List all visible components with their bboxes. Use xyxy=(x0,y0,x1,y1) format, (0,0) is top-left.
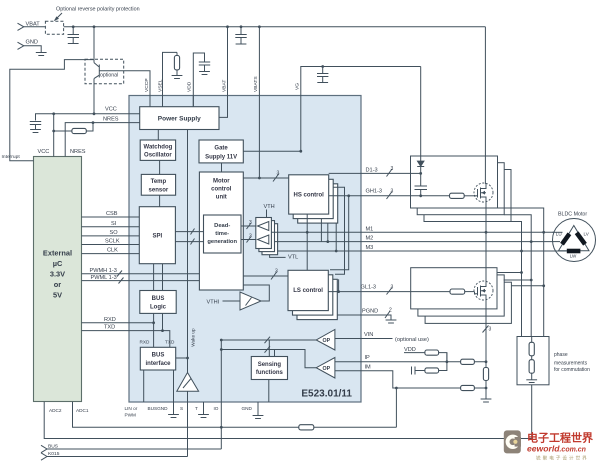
block HS control (stacked x3) xyxy=(289,175,338,223)
svg-text:E523.01/11: E523.01/11 xyxy=(301,389,352,400)
wire CLK from uC to SPI xyxy=(82,248,140,254)
resistor R-phase1 inside box xyxy=(529,337,534,356)
wire VBATS pin vertical xyxy=(258,25,261,179)
wire VG rail xyxy=(301,67,421,96)
svg-text:BUS: BUS xyxy=(152,296,165,302)
svg-text:interface: interface xyxy=(145,361,171,367)
watermark logo square xyxy=(504,430,521,453)
svg-text:CLK: CLK xyxy=(107,248,118,254)
wire M2 entry into motor xyxy=(553,241,561,243)
svg-text:BUS: BUS xyxy=(152,352,165,358)
pin GL1-3 wire with bus 3 xyxy=(328,285,450,295)
svg-text:3: 3 xyxy=(391,166,394,172)
wire VCC rail to Power Supply xyxy=(36,107,140,121)
svg-text:Oscillator: Oscillator xyxy=(144,153,172,159)
wire VCCP pin to optional transistor base xyxy=(99,71,150,96)
label NRES above uC xyxy=(70,149,86,155)
svg-text:BUSGND: BUSGND xyxy=(148,406,169,411)
wire optional transistor to VCC node xyxy=(93,79,96,116)
resistor R-IP series xyxy=(461,359,475,364)
label RXD at BUS interface xyxy=(140,340,151,345)
wire SPI to dead-time generation lines xyxy=(175,229,203,245)
connector GND input xyxy=(18,40,42,53)
wire IO pin vertical inside chip xyxy=(220,340,222,449)
pin VDD rotated label xyxy=(187,81,193,92)
pin label S xyxy=(180,406,183,411)
pin VCCP rotated label xyxy=(144,78,150,92)
svg-text:Wake up: Wake up xyxy=(191,328,196,347)
svg-text:time-: time- xyxy=(215,231,229,237)
wire sensing functions down to GND xyxy=(268,380,270,403)
wire OP1 output to IO vertical xyxy=(220,337,316,344)
resistor R-phase2 inside box xyxy=(529,356,534,380)
svg-text:S: S xyxy=(180,406,183,411)
svg-text:sensor: sensor xyxy=(149,188,169,194)
svg-text:3: 3 xyxy=(249,220,252,226)
resistor R-VDD xyxy=(425,350,448,363)
svg-text:M2: M2 xyxy=(366,236,374,242)
pin M1 wire xyxy=(271,226,557,232)
svg-text:3: 3 xyxy=(249,234,252,240)
wire CSB from uC to SPI xyxy=(82,211,140,217)
diode D-bootstrap xyxy=(417,161,424,186)
svg-text:generation: generation xyxy=(207,239,237,245)
resistor R-IM filter xyxy=(425,353,447,374)
pin label GND xyxy=(242,406,253,411)
wire BUS Logic to BUS interface verticals xyxy=(152,313,164,347)
svg-text:Watchdog: Watchdog xyxy=(144,145,173,151)
pin PGND wire with bus 2 and ground xyxy=(337,308,396,324)
wire VCCP VSEL VDD pin stubs into Power Supply xyxy=(150,96,193,107)
wire dead-time to comparators upper xyxy=(241,220,256,229)
svg-text:T: T xyxy=(195,406,198,411)
wire Gate Supply to Motor control unit xyxy=(221,163,223,172)
ground symbol at GND input xyxy=(36,53,47,56)
wire LIN or PWM pin stub xyxy=(143,370,145,402)
block Temp sensor xyxy=(141,174,175,195)
svg-text:3: 3 xyxy=(489,327,492,333)
wire Watchdog Oscillator to Temp sensor xyxy=(159,160,161,174)
wire dead-time to comparators lower xyxy=(241,234,256,243)
watermark chinese title xyxy=(527,431,593,445)
capacitor C-IM filter xyxy=(412,367,425,375)
svg-text:3: 3 xyxy=(391,285,394,291)
svg-text:SI: SI xyxy=(111,221,117,227)
svg-text:3: 3 xyxy=(391,189,394,195)
svg-text:IM: IM xyxy=(365,364,372,370)
wire SPI to BUS Logic verticals xyxy=(154,264,163,291)
wire TXD from uC xyxy=(82,325,170,348)
svg-text:SPI: SPI xyxy=(152,234,162,240)
pin M2 wire xyxy=(275,236,560,242)
svg-text:(optional use): (optional use) xyxy=(395,337,429,343)
wire SI from uC to SPI xyxy=(82,221,140,227)
block Dead-time-generation xyxy=(204,215,242,253)
wire HS front box down to LS control top xyxy=(306,214,309,270)
svg-text:GL1-3: GL1-3 xyxy=(361,285,377,291)
connector VBAT input xyxy=(18,22,46,31)
wire HS front corner to phase column 1 xyxy=(498,208,546,337)
BLDC motor circle with delta windings xyxy=(553,219,596,262)
wire SO from uC to SPI xyxy=(82,230,140,236)
phase measurement box xyxy=(517,337,590,385)
svg-text:3: 3 xyxy=(277,171,280,177)
pin label T xyxy=(195,406,198,411)
resistor R-gate-LS xyxy=(411,289,475,294)
svg-text:GH1-3: GH1-3 xyxy=(366,189,382,195)
wire HS copy3 corner to phase column 3 xyxy=(511,222,523,337)
wire HS copy2 right stub down to LS copy2 xyxy=(333,187,344,274)
resistor R-IM series xyxy=(461,385,475,390)
dashed box reverse polarity element xyxy=(45,21,63,34)
wire LS copy3 corner to GL line xyxy=(337,279,340,293)
svg-text:HS control: HS control xyxy=(294,193,325,199)
resistor R-NRES pull-up xyxy=(52,114,94,157)
svg-text:NRES: NRES xyxy=(103,117,119,123)
svg-text:PGND: PGND xyxy=(362,309,378,315)
svg-text:ADC2: ADC2 xyxy=(49,408,62,413)
svg-text:M1: M1 xyxy=(366,226,374,232)
connector BUS input xyxy=(41,444,221,453)
pin GH1-3 wire with bus 3 xyxy=(329,189,421,200)
annotation Optional reverse polarity protection xyxy=(54,7,140,22)
wire HS copy2 down to M2 xyxy=(320,219,322,242)
svg-text:LS control: LS control xyxy=(293,288,323,294)
svg-text:Gate: Gate xyxy=(214,146,228,152)
label VDD pull-up xyxy=(404,347,425,353)
pin VG rotated label xyxy=(295,83,301,90)
watermark eeworld url xyxy=(527,444,586,454)
capacitor C5 on VG rail xyxy=(317,65,328,82)
BLDC motor label xyxy=(558,212,587,218)
svg-text:VCC: VCC xyxy=(105,107,117,113)
microcontroller block External uC xyxy=(34,157,82,402)
svg-text:for commutation: for commutation xyxy=(554,367,590,373)
svg-text:optional: optional xyxy=(100,73,118,79)
svg-text:VTHI: VTHI xyxy=(207,299,220,305)
resistor R-shunt vertical xyxy=(481,334,492,402)
wire HS source down to M1 and LS drain xyxy=(485,202,488,283)
pin label ADC1 xyxy=(76,408,89,413)
svg-text:VDD: VDD xyxy=(187,81,193,92)
block LS control (stacked x3) xyxy=(288,270,337,319)
svg-text:VDD: VDD xyxy=(404,347,416,353)
svg-text:GND: GND xyxy=(26,40,38,46)
OP amp 1 VIN xyxy=(316,330,335,351)
svg-text:M3: M3 xyxy=(366,245,374,251)
transistor Q-HS MOSFET xyxy=(474,183,493,202)
wire MCU to HS control with bus 3 xyxy=(243,171,288,182)
node VTL label and stub xyxy=(270,255,299,261)
wire HS copy3 down to M3 junction xyxy=(335,223,338,252)
svg-text:3.3V: 3.3V xyxy=(50,270,65,279)
svg-text:SCLK: SCLK xyxy=(105,239,120,245)
block Sensing functions xyxy=(251,357,287,380)
wire GH junction down to LS front box top xyxy=(330,194,350,269)
label VCC above uC xyxy=(38,149,50,155)
svg-text:or: or xyxy=(54,280,62,289)
wire sensing functions up stubs xyxy=(269,340,274,357)
svg-text:锐聚电子设计世界: 锐聚电子设计世界 xyxy=(536,455,589,462)
capacitor C-bootstrap xyxy=(415,186,428,197)
block Gate Supply 11V xyxy=(199,140,243,163)
svg-text:Dead-: Dead- xyxy=(214,223,230,229)
wire VBAT pin vertical xyxy=(219,25,229,117)
pin IP wire xyxy=(335,355,486,362)
wire LS source down to sense network xyxy=(485,300,487,335)
svg-text:Interrupt: Interrupt xyxy=(2,154,21,160)
resistor R-IO on rail xyxy=(299,425,397,430)
pin VSEL rotated label xyxy=(158,79,164,92)
pin label LIN or PWM xyxy=(125,406,138,418)
svg-text:GND: GND xyxy=(242,406,253,411)
svg-text:phase: phase xyxy=(554,352,568,358)
svg-text:3: 3 xyxy=(275,269,278,275)
wire VSEL pull-down xyxy=(163,52,183,106)
svg-text:IP: IP xyxy=(365,355,371,361)
svg-text:IO: IO xyxy=(214,406,219,411)
IC E523.01/11 main chip body xyxy=(129,96,361,403)
bus 3 marker on LS source xyxy=(483,326,492,333)
svg-text:Supply 11V: Supply 11V xyxy=(205,155,237,161)
svg-text:CSB: CSB xyxy=(106,211,118,217)
wire phase box to ADC2 rail xyxy=(531,385,533,439)
pin D1-3 wire with bus 3 xyxy=(329,166,421,177)
amplifier triangle above S pin xyxy=(176,357,199,402)
comparator stack VTH/VTL (stacked x3) xyxy=(256,218,278,255)
op-amp VTHI buffer xyxy=(207,285,270,310)
svg-text:D1-3: D1-3 xyxy=(366,168,378,174)
wire GND pin ground xyxy=(253,402,264,419)
wire HS copy2 corner to phase column 2 xyxy=(504,215,532,337)
block Motor control unit xyxy=(199,172,243,290)
wire M1 entry into motor xyxy=(553,231,563,233)
wire PWML 1-3 xyxy=(82,275,200,284)
label Wake up rotated xyxy=(191,328,196,347)
svg-text:PWMH 1-3: PWMH 1-3 xyxy=(90,268,117,274)
svg-text:VCC: VCC xyxy=(38,149,50,155)
svg-text:External: External xyxy=(43,249,72,258)
svg-text:Sensing: Sensing xyxy=(258,362,282,368)
label TXD at BUS interface xyxy=(165,340,175,345)
wire LS copy drain stub 3 xyxy=(511,285,544,287)
svg-text:VBAT: VBAT xyxy=(222,80,228,92)
capacitor C4 VBAT at chip xyxy=(235,25,246,44)
svg-text:电子工程世界: 电子工程世界 xyxy=(527,431,593,445)
wire VBAT rail top xyxy=(64,26,486,28)
wire optional transistor drop from VBAT rail xyxy=(93,25,96,62)
svg-text:PWM: PWM xyxy=(125,413,137,418)
connector K015 input xyxy=(41,451,188,460)
svg-text:BLDC Motor: BLDC Motor xyxy=(558,212,587,218)
svg-text:PWML 1-3: PWML 1-3 xyxy=(91,275,117,281)
svg-text:VTH: VTH xyxy=(264,204,275,210)
svg-text:TXD: TXD xyxy=(104,325,115,331)
wire M3 entry into motor LW coil xyxy=(553,250,568,252)
wire MCU to LS control with bus 3 xyxy=(243,269,288,280)
pin VIN wire optional use xyxy=(335,332,429,343)
transistor Q1 optional PNP xyxy=(94,63,99,79)
pin label BUSGND xyxy=(148,406,169,411)
wire LS copy drain stub 2 xyxy=(504,279,532,281)
wire Interrupt xyxy=(2,60,95,161)
svg-text:Temp: Temp xyxy=(151,179,167,185)
svg-text:NRES: NRES xyxy=(70,149,86,155)
svg-text:OP: OP xyxy=(323,338,331,344)
svg-text:VBATS: VBATS xyxy=(253,76,259,92)
pin VBATS rotated label xyxy=(253,76,259,92)
capacitor C1 on VBAT near input xyxy=(68,25,80,43)
block BUS interface xyxy=(140,347,175,370)
wire Power Supply long vertical to S amplifier xyxy=(187,130,189,373)
svg-text:TXD: TXD xyxy=(165,340,175,345)
wire RXD from uC xyxy=(82,317,154,323)
svg-text:Motor: Motor xyxy=(213,179,230,185)
svg-text:2: 2 xyxy=(389,308,392,314)
wire LS drain up through box xyxy=(485,268,487,282)
svg-text:LIN or: LIN or xyxy=(125,406,138,411)
svg-text:RXD: RXD xyxy=(140,340,151,345)
svg-text:VTL: VTL xyxy=(288,255,298,261)
wire VBAT drop to HS drain xyxy=(484,27,486,184)
wire ADC2 vertical xyxy=(44,402,532,439)
svg-text:VIN: VIN xyxy=(364,332,373,338)
pin M3 wire xyxy=(278,245,566,251)
wire PWMH 1-3 xyxy=(82,268,200,277)
ground inside phase box xyxy=(526,380,537,383)
wire T pin ground xyxy=(198,402,209,418)
svg-text:functions: functions xyxy=(256,370,284,376)
wire D1-3 segment inside HS box xyxy=(411,172,421,174)
svg-text:Power Supply: Power Supply xyxy=(158,116,201,123)
wire ADC1 vertical and rail xyxy=(73,402,299,429)
svg-text:VCCP: VCCP xyxy=(144,78,150,92)
block SPI xyxy=(139,207,175,264)
svg-text:LW: LW xyxy=(570,254,577,259)
pin VBAT rotated label xyxy=(222,80,228,92)
svg-text:unit: unit xyxy=(216,195,227,201)
block Watchdog Oscillator xyxy=(140,140,175,160)
wire SCLK from uC to SPI xyxy=(82,239,140,245)
wire HS copy3 down to M2 junction xyxy=(326,223,329,243)
wire Temp sensor to SPI xyxy=(159,195,161,207)
wire NRES line to Power Supply xyxy=(65,117,140,157)
wire Power Supply to Watchdog Oscillator xyxy=(157,130,159,141)
svg-text:VG: VG xyxy=(295,83,301,90)
svg-text:RXD: RXD xyxy=(104,317,116,323)
node VTH label and stub xyxy=(264,204,275,218)
dashed box optional transistor xyxy=(85,59,124,84)
external HS MOSFET box stack x3 xyxy=(411,156,512,222)
pin IM wire xyxy=(335,364,486,388)
wire S pin vertical to K015 xyxy=(187,402,189,457)
wire LS copy drain stub 1 xyxy=(497,272,522,274)
junction IM bottom row xyxy=(395,387,398,428)
block Power Supply U-PS xyxy=(140,107,219,130)
pin label IO xyxy=(214,406,219,411)
block BUS Logic xyxy=(140,291,176,314)
wire BUSGND pin with ground xyxy=(168,370,179,418)
OP amp 2 current sense xyxy=(316,358,335,379)
svg-text:SO: SO xyxy=(110,230,119,236)
svg-text:5V: 5V xyxy=(53,291,62,300)
svg-text:control: control xyxy=(211,187,232,193)
resistor R-gate-HS xyxy=(450,193,475,198)
svg-text:µC: µC xyxy=(53,259,63,268)
capacitor C2 VCC decoupling xyxy=(30,122,41,133)
svg-text:Logic: Logic xyxy=(150,304,167,310)
pin label ADC2 xyxy=(49,408,62,413)
svg-text:OP: OP xyxy=(323,366,331,372)
wire VG drop into HS box xyxy=(420,67,422,162)
wire GH1-3 segment inside HS box xyxy=(411,195,450,197)
watermark small slogan xyxy=(536,455,589,462)
wire VDD with capacitor C3 xyxy=(193,53,210,107)
wire OP2 output line xyxy=(220,346,316,368)
external LS MOSFET box stack x3 xyxy=(411,268,512,324)
svg-text:ADC1: ADC1 xyxy=(76,408,89,413)
wire Gate Supply to VG node xyxy=(243,96,302,153)
svg-text:Optional reverse polarity prot: Optional reverse polarity protection xyxy=(56,7,140,13)
svg-text:measurements: measurements xyxy=(554,361,588,367)
transistor Q-LS MOSFET xyxy=(474,281,493,300)
